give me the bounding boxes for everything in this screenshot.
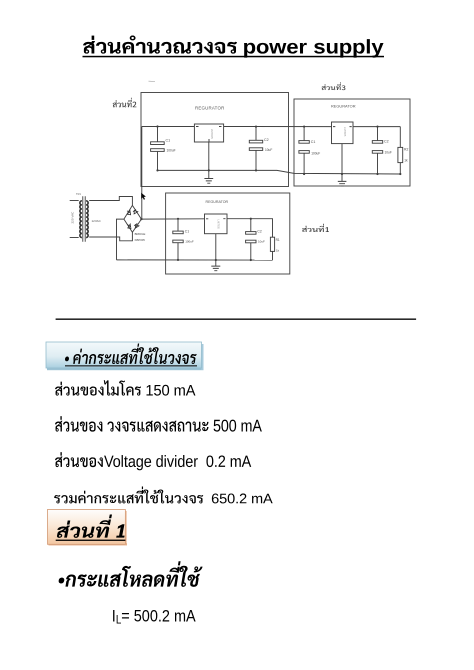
horizontal separator rule xyxy=(56,318,417,320)
section 1 enclosure box (lower) xyxy=(166,193,290,274)
wire: R1 to ground rail xyxy=(272,251,274,260)
regulator U3 (section 3) xyxy=(332,122,354,144)
blue heading underline xyxy=(65,365,197,366)
title underline xyxy=(83,56,385,58)
text t7 xyxy=(57,514,125,537)
wire: secondary bottom lead to bridge xyxy=(89,232,132,241)
regulator U1 (section 2) xyxy=(194,124,223,142)
svg-text:C1: C1 xyxy=(311,140,316,144)
regulator U1 pin ticks xyxy=(196,127,222,143)
capacitor C1 (section2) plates xyxy=(151,142,165,145)
stray scan dash xyxy=(149,80,156,82)
capacitor C2 (section2) plates xyxy=(249,140,262,143)
section 2 enclosure box xyxy=(141,93,289,187)
svg-text:10uF: 10uF xyxy=(258,239,265,243)
svg-text:= 500.2 mA: = 500.2 mA xyxy=(121,607,196,625)
schematic group xyxy=(70,93,410,275)
wire: section2 ground rail xyxy=(158,170,401,174)
capacitor C2 (section2) stem xyxy=(255,127,257,171)
text t2 xyxy=(65,343,197,364)
wire: primary top lead xyxy=(70,200,79,202)
svg-text:REGURATOR: REGURATOR xyxy=(206,200,229,204)
capacitor C1 (section2) stem xyxy=(157,127,159,171)
section heading underline xyxy=(56,540,126,541)
svg-text:C1: C1 xyxy=(185,229,189,233)
capacitor C6 (lower) plates xyxy=(246,232,256,235)
svg-text:100uF: 100uF xyxy=(167,149,176,153)
svg-text:100uF: 100uF xyxy=(185,240,194,244)
svg-text:C2: C2 xyxy=(264,138,269,142)
capacitor C4 (section3) plates xyxy=(372,141,382,144)
svg-text:LM7805: LM7805 xyxy=(210,129,214,140)
text t5 xyxy=(55,452,251,470)
wire: section2 output rail to section3 input xyxy=(224,126,332,128)
text t1 xyxy=(83,35,383,57)
capacitor C3 (section3) stem xyxy=(303,127,305,174)
text s2 xyxy=(322,82,346,90)
svg-text:C2: C2 xyxy=(257,230,261,234)
svg-text:REGURATOR: REGURATOR xyxy=(195,106,224,111)
svg-text:BRIDGE: BRIDGE xyxy=(135,232,146,236)
svg-text:C2: C2 xyxy=(384,140,389,144)
text t6 xyxy=(54,486,272,503)
resistor R1 (lower load) xyxy=(270,237,274,251)
svg-text:R2: R2 xyxy=(404,148,408,152)
svg-text:10uF: 10uF xyxy=(385,151,392,155)
svg-text:10uF: 10uF xyxy=(265,148,272,152)
regulator U2 pin ticks xyxy=(206,218,226,220)
svg-text:12VAC: 12VAC xyxy=(92,219,102,223)
svg-text:TR1: TR1 xyxy=(76,192,81,196)
wire: section3 output drop to R2 xyxy=(399,127,401,148)
wire: section3 output rail xyxy=(353,126,400,128)
wire: lower regulator output rail xyxy=(227,219,273,238)
wire: lower ground rail from bridge loop xyxy=(117,259,273,261)
svg-text:1k: 1k xyxy=(404,159,408,163)
regulator U3 pin ticks xyxy=(333,126,352,128)
capacitor C5 (lower) plates xyxy=(173,231,183,234)
bridge rectifier D1 diamond xyxy=(124,205,141,232)
ground (lower regulator) xyxy=(211,234,220,271)
peach section box xyxy=(48,510,128,546)
wire: bridge positive output riser to section2 xyxy=(141,127,143,220)
text IL = 500.2 mA xyxy=(112,607,196,627)
text s1 xyxy=(113,98,137,108)
text t4 xyxy=(55,416,262,431)
wire: bridge output rail into lower regulator xyxy=(141,218,204,220)
bridge diode marks xyxy=(127,210,139,229)
junction dots xyxy=(140,125,401,261)
svg-text:KBP005: KBP005 xyxy=(135,238,146,242)
svg-text:1k: 1k xyxy=(276,249,280,253)
capacitor C6 (lower) stem xyxy=(250,219,252,260)
svg-text:LM7805: LM7805 xyxy=(217,220,221,230)
text t3 xyxy=(55,380,195,395)
wire: R2 to ground rail xyxy=(399,163,401,174)
transformer T1 secondary winding xyxy=(86,201,88,238)
text s3 xyxy=(302,224,329,232)
mouse cursor arrow at node xyxy=(141,193,146,200)
ground (section2 regulator) xyxy=(204,142,213,183)
capacitor C3 (section3) plates xyxy=(299,141,309,144)
regulator U2 (section 1 lower) xyxy=(205,214,228,234)
resistor R2 (section3) xyxy=(398,147,403,162)
transformer T1 primary winding xyxy=(80,201,82,238)
svg-text:220 VAC: 220 VAC xyxy=(71,211,75,224)
ground (section3 regulator) xyxy=(338,144,347,186)
capacitor C5 (lower) stem xyxy=(177,219,179,260)
schematic small labels xyxy=(71,81,409,252)
wire: section2 input rail xyxy=(142,126,195,128)
blue highlight box xyxy=(46,342,204,370)
svg-text:100uF: 100uF xyxy=(311,152,320,156)
text t8 xyxy=(59,561,203,587)
capacitor C4 (section3) stem xyxy=(377,127,379,174)
wire: secondary top lead to bridge xyxy=(89,197,132,206)
transformer T1 core xyxy=(83,196,86,241)
svg-text:REGURATOR: REGURATOR xyxy=(331,104,356,109)
wire: bridge left corner to ground loop xyxy=(117,219,124,260)
svg-text:R1: R1 xyxy=(276,238,280,242)
svg-text:C1: C1 xyxy=(166,139,171,143)
svg-text:LM7805: LM7805 xyxy=(343,127,347,137)
section 3 enclosure box xyxy=(294,99,410,186)
wire: primary bottom lead xyxy=(70,237,79,239)
